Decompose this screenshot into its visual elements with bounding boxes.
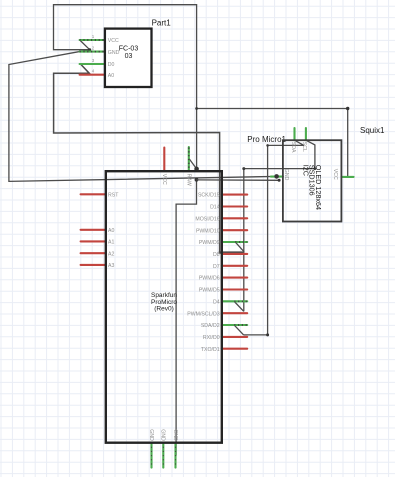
pin VCC right — [341, 176, 353, 178]
node junction RAW — [194, 167, 199, 172]
svg-text:SCK/D15: SCK/D15 — [198, 193, 220, 199]
pin GND bottom 2 — [162, 443, 164, 468]
svg-text:GND: GND — [172, 429, 178, 441]
svg-text:03: 03 — [125, 53, 133, 60]
microcontroller Pro Micro1 Sparkfun ProMicro — [81, 135, 287, 467]
pin D8 — [222, 253, 247, 255]
node SCL bend upper — [242, 167, 245, 170]
svg-text:RST: RST — [108, 192, 119, 198]
pin SDA/D2 — [222, 324, 247, 326]
pin PWM/D5 — [222, 288, 247, 290]
node junction OLED VCC corner — [346, 107, 349, 110]
wire net GND: FC-03 GND down left side across to OLED GND — [9, 50, 277, 182]
node junction GND mid — [195, 178, 199, 182]
svg-text:Pro Micro1: Pro Micro1 — [247, 135, 286, 144]
pin GND left — [271, 176, 283, 178]
svg-text:VCC: VCC — [161, 174, 167, 185]
svg-text:MOSI/D16: MOSI/D16 — [195, 216, 219, 222]
svg-text:A2: A2 — [108, 251, 114, 257]
wire net D0: diagonal to PWM/D9 pin — [235, 242, 244, 252]
svg-text:FC-03: FC-03 — [119, 46, 139, 53]
svg-text:SDA: SDA — [290, 142, 296, 153]
pin A3 — [81, 264, 106, 266]
pin 2 GND — [80, 51, 106, 53]
wire net GND: spur to OLED GND area — [197, 179, 280, 181]
water sensor FC-03 Part1 — [80, 19, 172, 88]
svg-text:GND: GND — [283, 169, 289, 181]
pin D7 — [222, 265, 247, 267]
wire net SDA: OLED SDA to ProMicro SDA/D2 — [244, 140, 304, 335]
pin 3 D0 — [80, 63, 106, 65]
wire net VCC: branch to OLED VCC — [197, 109, 348, 177]
node junction VCC branch — [195, 107, 198, 110]
svg-text:A3: A3 — [108, 263, 114, 269]
wire net D0: FC-03 D0 to ProMicro PWM/D9 — [54, 64, 220, 253]
svg-text:D14: D14 — [210, 205, 220, 211]
svg-text:D4: D4 — [213, 299, 220, 305]
pin SCL top — [305, 128, 307, 140]
svg-text:A0: A0 — [108, 228, 114, 234]
svg-text:PWM/D10: PWM/D10 — [196, 228, 220, 234]
svg-text:VCC: VCC — [332, 169, 338, 180]
wire net SCL: OLED SCL to ProMicro D4 — [244, 140, 315, 311]
pin D14 — [222, 205, 247, 207]
pin SCK/D15 — [222, 194, 247, 196]
pin RXI/D0 — [222, 336, 247, 338]
node SDA bend — [266, 333, 269, 336]
pin VCC top — [163, 148, 165, 172]
svg-text:D8: D8 — [213, 252, 220, 258]
svg-text:GND: GND — [160, 429, 166, 441]
svg-text:I2C: I2C — [301, 165, 310, 176]
pin SDA top — [293, 128, 295, 140]
svg-text:PWM/D6: PWM/D6 — [199, 276, 220, 282]
svg-text:D0: D0 — [108, 62, 115, 68]
svg-text:TXO/D1: TXO/D1 — [201, 347, 220, 353]
body OLED — [283, 140, 342, 221]
svg-text:PWM/SCL/D3: PWM/SCL/D3 — [187, 311, 219, 317]
body Sparkfun ProMicro — [106, 171, 222, 443]
svg-text:PWM/D9: PWM/D9 — [199, 240, 220, 246]
pin TXO/D1 — [222, 348, 247, 350]
pin A0 — [81, 229, 106, 231]
pin MOSI/D16 — [222, 217, 247, 219]
pin A1 — [81, 240, 106, 242]
svg-text:PWM/D5: PWM/D5 — [199, 288, 220, 294]
pin PWM/D6 — [222, 277, 247, 279]
pin PWM/D9 — [222, 241, 247, 243]
svg-text:GND: GND — [148, 429, 154, 441]
node SDA bend upper — [266, 144, 269, 147]
wire net VCC: diagonal into RAW pin — [189, 158, 197, 169]
pin RAW top — [188, 147, 190, 171]
pin GND bottom 3 — [174, 443, 176, 468]
pin PWM/SCL/D3 — [222, 312, 247, 314]
wire net VCC: FC-03 VCC to ProMicro RAW — [54, 5, 197, 169]
svg-text:A0: A0 — [108, 73, 114, 79]
pin PWM/D10 — [222, 229, 247, 231]
svg-text:VCC: VCC — [108, 38, 119, 44]
pin GND bottom 1 — [150, 443, 152, 468]
pin A2 — [81, 252, 106, 254]
pin 1 VCC — [80, 39, 106, 41]
pin D4 — [222, 300, 247, 302]
display OLED Squix1 — [271, 126, 385, 222]
svg-text:A1: A1 — [108, 240, 114, 246]
node OLED GND junction — [274, 174, 279, 179]
wire net GND: drop to ProMicro bottom GND pin — [176, 180, 196, 456]
body FC-03 — [105, 29, 152, 87]
node SCL bend right — [314, 167, 317, 170]
svg-text:RAW: RAW — [185, 174, 191, 186]
wire net D0: segment over D8 pin — [219, 251, 245, 253]
svg-text:D7: D7 — [213, 264, 220, 270]
svg-text:SDA/D2: SDA/D2 — [201, 323, 220, 329]
pin RST — [81, 193, 106, 195]
svg-text:Part1: Part1 — [152, 19, 172, 28]
svg-text:(Rev0): (Rev0) — [154, 306, 174, 313]
pin 4 A0 — [80, 74, 106, 76]
svg-text:SCL: SCL — [301, 142, 307, 152]
wire net SDA: diagonal to SDA/D2 pin — [234, 325, 243, 335]
node GND spur end — [278, 179, 281, 182]
svg-text:RXI/D0: RXI/D0 — [203, 335, 220, 341]
wire net SCL: diagonal to D4 pin — [234, 302, 244, 312]
node junction FC-03 GND bend — [88, 48, 91, 51]
svg-text:Squix1: Squix1 — [360, 126, 385, 135]
svg-text:GND: GND — [108, 50, 120, 56]
